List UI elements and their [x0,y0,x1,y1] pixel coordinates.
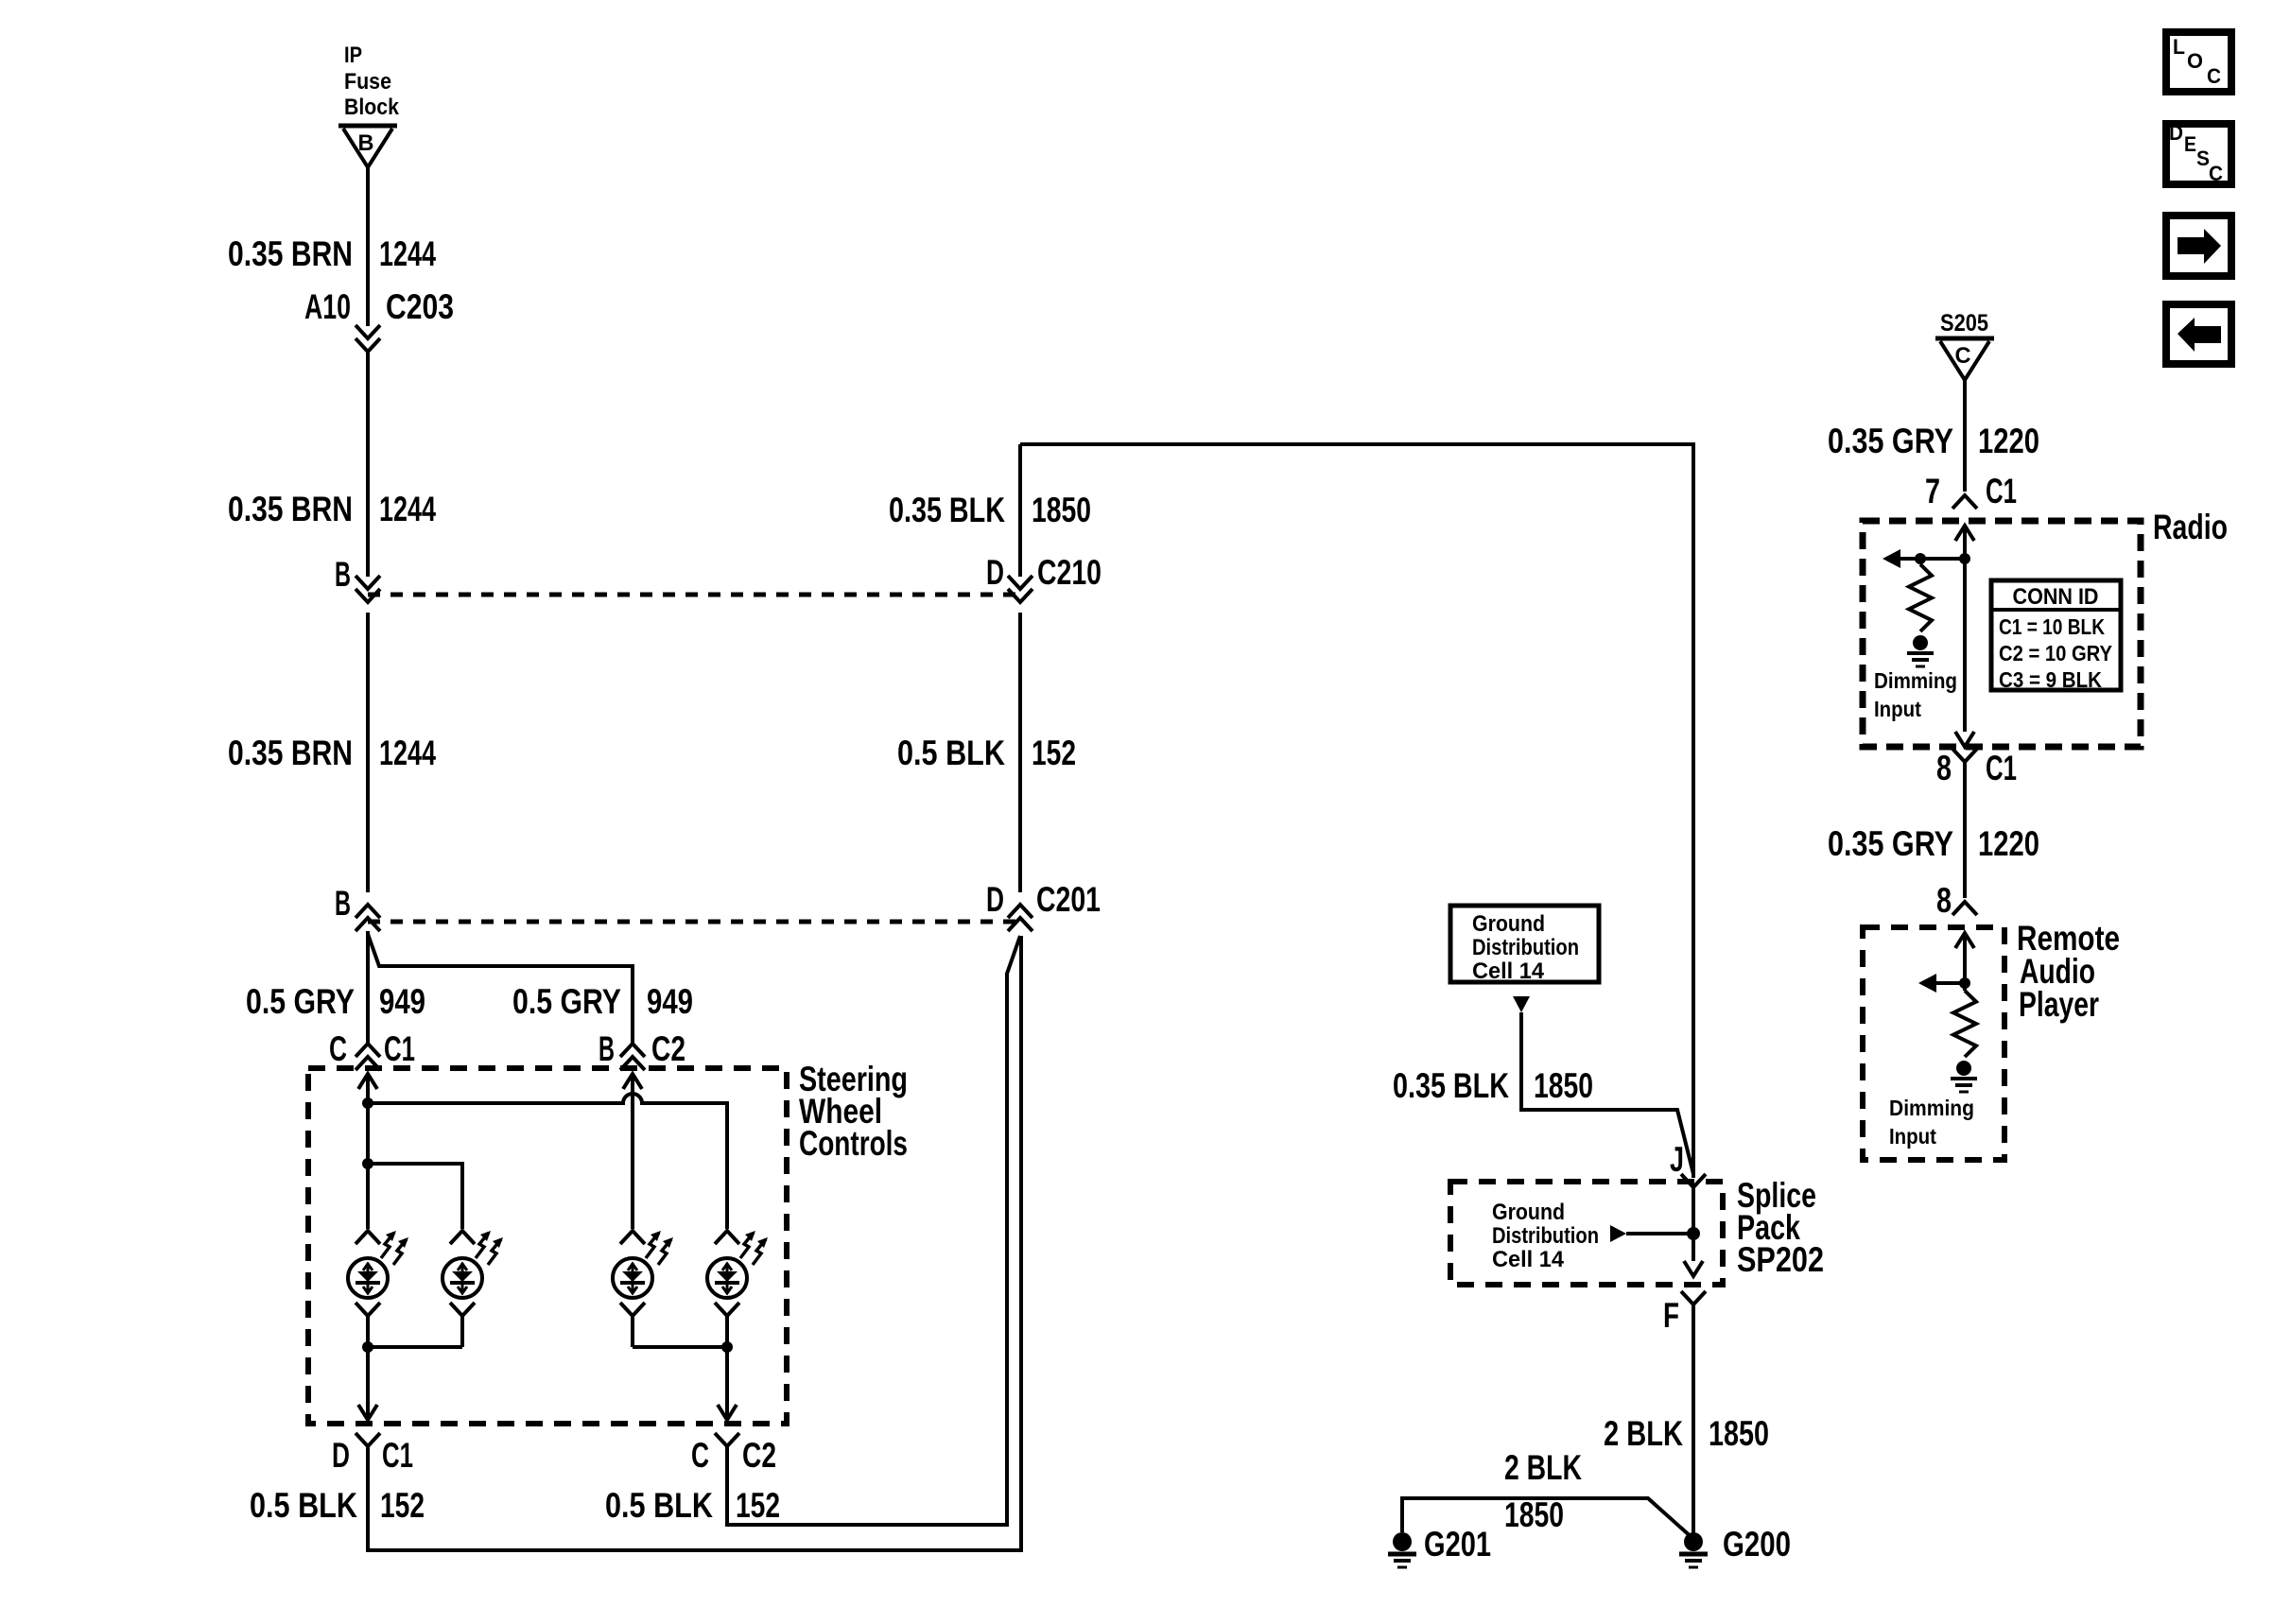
dimming input node [1959,553,1970,564]
wire below C201 left [366,931,370,1044]
svg-text:Distribution: Distribution [1472,935,1579,960]
wire [366,613,370,892]
wires below LEDs [366,1316,370,1347]
join LED1+LED2 [368,1345,462,1349]
svg-text:0.35 BRN: 0.35 BRN [228,734,353,772]
svg-text:8: 8 [1936,749,1952,787]
remote audio player dashed box [1863,927,2004,1160]
prev-page arrow box [2166,304,2231,364]
svg-text:0.35 BRN: 0.35 BRN [228,234,353,273]
svg-text:C: C [1955,343,1971,369]
branch wire to LED4 with hop over C2 wire [368,1094,727,1229]
svg-text:152: 152 [736,1486,780,1525]
join LED3+LED4 [633,1345,727,1349]
svg-text:1244: 1244 [379,234,436,273]
svg-text:J: J [1670,1140,1684,1179]
svg-text:949: 949 [647,982,693,1021]
ground G200 [1684,1532,1703,1551]
LED 4 [715,1231,739,1244]
svg-text:1850: 1850 [1709,1414,1769,1453]
CONN ID table [1991,580,2121,690]
svg-text:G200: G200 [1723,1525,1791,1564]
svg-text:Radio: Radio [2153,508,2228,546]
splice wire [1692,1187,1695,1261]
svg-text:0.35 GRY: 0.35 GRY [1828,824,1953,863]
svg-text:C2: C2 [651,1029,685,1068]
svg-text:Ground: Ground [1472,911,1545,937]
wire [1963,762,1967,898]
radio entry arrow [1955,526,1974,541]
svg-text:C1: C1 [1986,472,2017,510]
svg-text:0.5 GRY: 0.5 GRY [512,982,621,1021]
branch wire to LED2 [368,1164,462,1229]
remote dimming arrow [1935,981,1965,985]
svg-text:S205: S205 [1940,310,1988,337]
off-page triangle [1513,996,1530,1012]
splice pack pin F [1681,1291,1706,1304]
svg-text:D: D [2169,121,2183,145]
svg-text:Cell 14: Cell 14 [1492,1247,1565,1272]
connector B (IP fuse block) [338,124,397,129]
svg-text:D: D [986,880,1004,919]
svg-text:D: D [986,553,1004,592]
svg-text:G201: G201 [1424,1525,1491,1564]
svg-text:1850: 1850 [1504,1495,1564,1534]
svg-text:1220: 1220 [1978,824,2039,863]
wire [366,352,370,577]
junction node (C1 top) [362,1097,373,1109]
svg-text:0.35 GRY: 0.35 GRY [1828,422,1953,460]
svg-text:C3 = 9 BLK: C3 = 9 BLK [1999,667,2102,692]
svg-text:0.5 BLK: 0.5 BLK [250,1486,357,1525]
LED 2 [450,1231,475,1244]
svg-text:Controls: Controls [799,1124,908,1163]
svg-text:D: D [332,1436,350,1475]
svg-text:C210: C210 [1037,553,1102,592]
svg-text:C201: C201 [1036,880,1101,919]
svg-text:0.5 BLK: 0.5 BLK [897,734,1005,772]
remote resistor ground [1956,1061,1971,1076]
svg-text:A10: A10 [304,287,351,326]
svg-text:949: 949 [379,982,425,1021]
resistor node [1915,553,1926,564]
svg-text:152: 152 [1032,734,1076,772]
connector C (S205) [1935,337,1994,341]
wire to G200 [1692,1304,1695,1536]
svg-text:C1: C1 [382,1436,413,1475]
svg-text:2 BLK: 2 BLK [1504,1448,1582,1487]
return wire C1 to C201 [368,936,1021,1550]
dashed in-line connector C210 [368,593,1020,597]
svg-text:C1: C1 [384,1029,415,1068]
svg-text:Fuse: Fuse [344,69,391,95]
svg-text:1850: 1850 [1534,1066,1593,1105]
return wire C2 to C201 [727,936,1020,1525]
svg-text:1244: 1244 [379,734,436,772]
svg-text:Cell 14: Cell 14 [1472,959,1545,984]
svg-text:Input: Input [1874,697,1921,721]
svg-text:7: 7 [1925,472,1940,510]
svg-text:F: F [1663,1296,1679,1335]
svg-text:Dimming: Dimming [1874,668,1957,693]
LED 1 [356,1231,380,1244]
svg-text:8: 8 [1936,881,1952,920]
svg-text:0.35 BRN: 0.35 BRN [228,490,353,528]
svg-text:Ground: Ground [1492,1200,1565,1225]
svg-text:SP202: SP202 [1737,1240,1824,1279]
LOC box [2166,32,2231,92]
svg-text:C: C [2207,64,2221,88]
svg-text:B: B [335,555,351,594]
wire riser to C210/C201 [1018,444,1022,577]
svg-text:L: L [2173,35,2185,59]
svg-text:C2: C2 [742,1436,776,1475]
svg-text:2 BLK: 2 BLK [1604,1414,1683,1453]
wire [1018,613,1022,892]
svg-text:0.5 BLK: 0.5 BLK [605,1486,713,1525]
svg-text:0.5 GRY: 0.5 GRY [246,982,355,1021]
svg-text:B: B [599,1029,615,1068]
splice pack SP202 dashed box [1450,1182,1723,1285]
svg-text:C1 = 10 BLK: C1 = 10 BLK [1999,614,2105,639]
wire from fuse block [366,167,370,326]
svg-text:Player: Player [2019,985,2099,1024]
LED 3 [620,1231,645,1244]
dashed in-line connector C201 [368,920,1020,924]
exit wires with arrows [366,1347,370,1420]
steering wheel controls dashed box [308,1068,787,1424]
svg-text:B: B [335,884,351,923]
svg-text:0.35 BLK: 0.35 BLK [1393,1066,1509,1105]
resistor ground [1913,635,1928,650]
svg-text:O: O [2187,49,2203,73]
svg-text:C203: C203 [386,287,454,326]
svg-text:1220: 1220 [1978,422,2039,460]
wire 0.35 BLK 1850 to splice [1521,1012,1693,1174]
splice node [1687,1227,1700,1240]
svg-text:S: S [2196,147,2210,170]
svg-text:C2 = 10 GRY: C2 = 10 GRY [1999,641,2112,665]
C1 entry arrow [358,1074,377,1089]
svg-text:0.35 BLK: 0.35 BLK [889,491,1005,529]
top horizontal wire [1020,444,1693,1178]
wire G201 to G200 [1402,1498,1693,1539]
exit chevrons below box [356,1433,380,1446]
svg-text:1850: 1850 [1032,491,1091,529]
ground distribution cell 14 box [1450,906,1599,982]
DESC box [2166,124,2231,184]
junction node (C1 lower) [362,1158,373,1169]
svg-text:CONN ID: CONN ID [2013,584,2099,610]
svg-text:Dimming: Dimming [1889,1096,1974,1120]
splice arrow [1610,1225,1626,1242]
radio dashed box [1863,521,2141,747]
branch wire to C2 [368,934,633,1044]
svg-text:E: E [2184,132,2196,156]
svg-text:152: 152 [380,1486,425,1525]
svg-text:C: C [2209,162,2223,185]
remote dimming resistor [1953,991,1976,1057]
wire [1963,380,1967,492]
ground G201 [1393,1532,1412,1551]
svg-text:C: C [329,1029,347,1068]
remote entry arrow [1955,933,1974,948]
radio internal wire [1963,526,1967,732]
dimming resistor [1909,564,1932,631]
svg-text:C1: C1 [1986,749,2017,787]
remote dimming node [1959,977,1970,989]
dimming input arrow [1899,557,1965,561]
svg-text:Distribution: Distribution [1492,1223,1599,1249]
next-page arrow box [2166,216,2231,276]
svg-text:B: B [358,130,374,156]
svg-text:Block: Block [344,95,400,120]
svg-text:IP: IP [344,43,362,68]
svg-text:Input: Input [1889,1124,1936,1149]
svg-text:C: C [691,1436,709,1475]
radio pin 8 C1 [1952,749,1977,762]
svg-text:1244: 1244 [379,490,436,528]
C2 entry arrow [623,1074,642,1089]
